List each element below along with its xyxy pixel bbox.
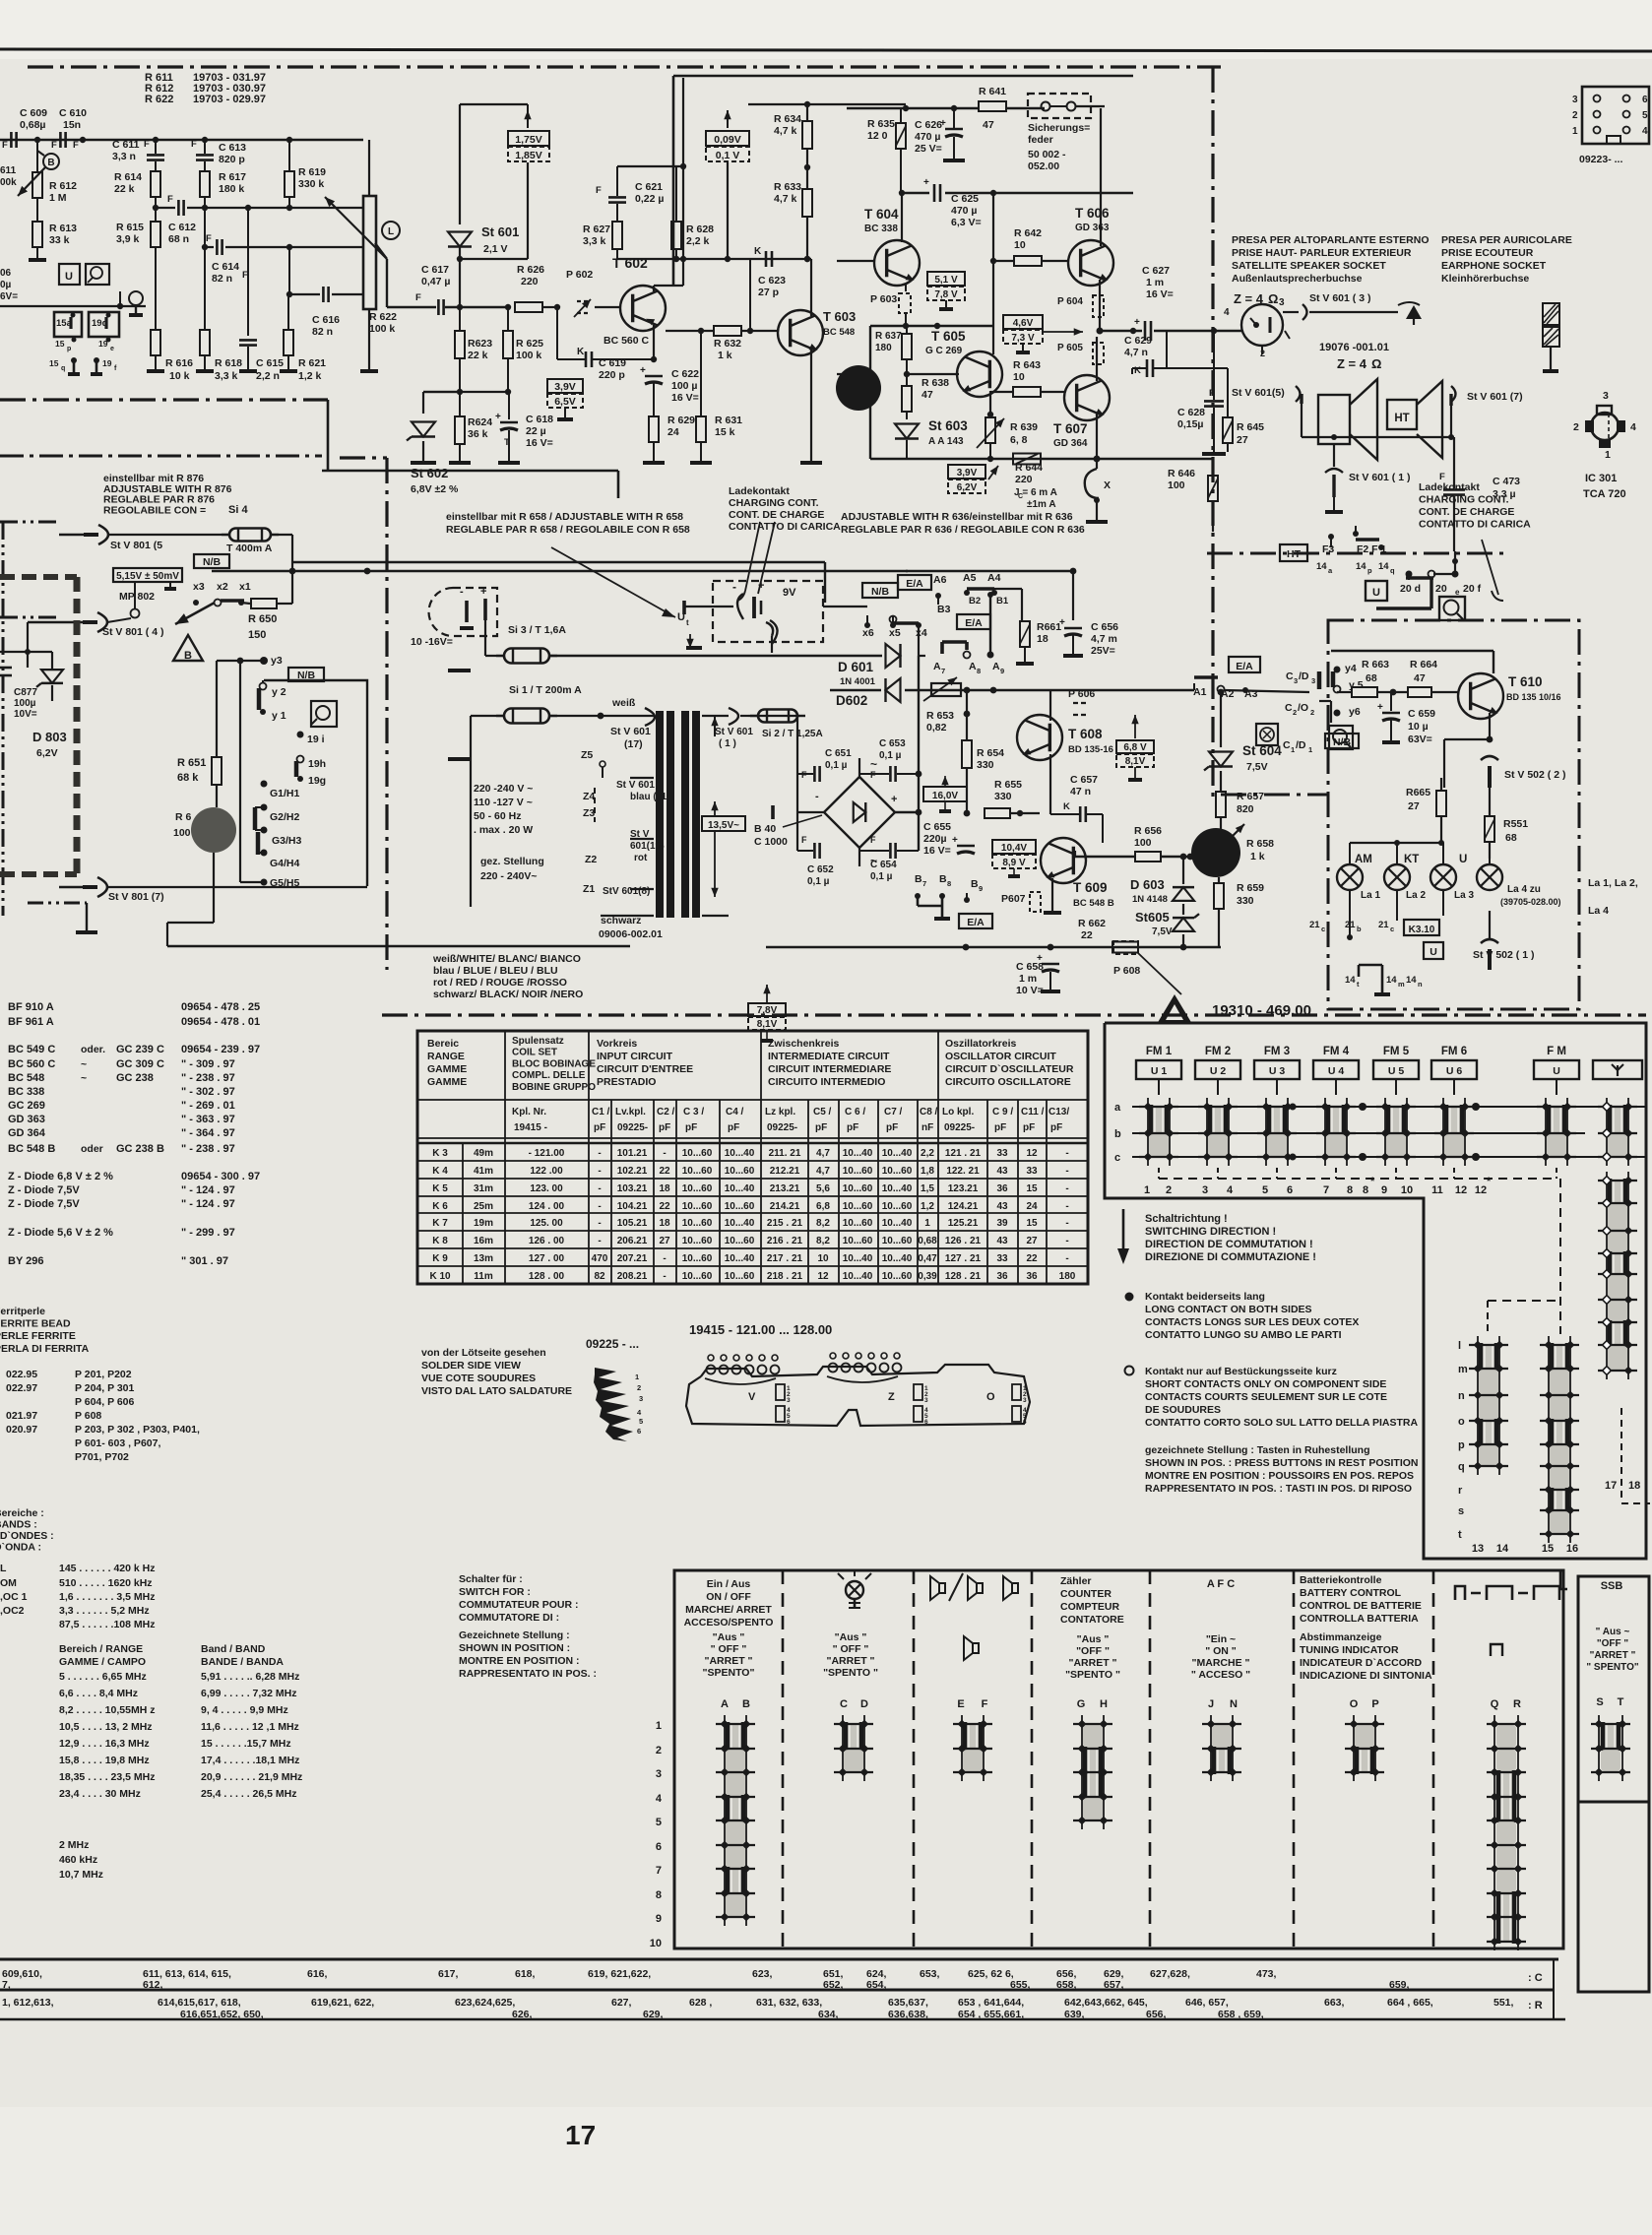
table verticals: [504, 1100, 506, 1284]
svg-text:P 203, P 302 , P303, P401,: P 203, P 302 , P303, P401,: [75, 1424, 200, 1436]
svg-text:T 606: T 606: [1075, 206, 1110, 221]
svg-text:4: 4: [1227, 1184, 1234, 1196]
capacitor C626 470u: [945, 128, 963, 131]
battery 9V dashed box: [713, 581, 823, 642]
svg-text:43: 43: [996, 1201, 1008, 1212]
svg-text:09225-: 09225-: [944, 1122, 975, 1133]
svg-text:C 655: C 655: [923, 821, 951, 833]
svg-text:+: +: [480, 586, 486, 598]
bridge terminal: [771, 805, 775, 819]
transformer arrow: [714, 717, 716, 736]
svg-text:TUNING INDICATOR: TUNING INDICATOR: [1300, 1644, 1399, 1656]
wiper arrow: [175, 603, 215, 624]
svg-text:7: 7: [656, 1865, 662, 1877]
charging contact wire: [766, 622, 773, 636]
svg-text:m: m: [1398, 980, 1405, 989]
Ladekontakt leader: [745, 522, 760, 591]
svg-text:St V 601(5): St V 601(5): [1232, 387, 1285, 399]
svg-text:12 0: 12 0: [867, 130, 888, 142]
resistor R638 47: [902, 386, 912, 412]
svg-text:B: B: [915, 873, 922, 885]
svg-text:15: 15: [1026, 1183, 1038, 1194]
svg-text:A: A: [992, 661, 1000, 672]
resistor R628 2,2k: [671, 222, 681, 249]
svg-text:-: -: [663, 1148, 666, 1159]
svg-text:625, 62 6,: 625, 62 6,: [968, 1968, 1014, 1980]
contacts 19h 19g: [297, 756, 304, 763]
svg-text:-: -: [598, 1183, 601, 1194]
svg-text:470 µ: 470 µ: [951, 205, 978, 217]
svg-text:St V 601 ( 3 ): St V 601 ( 3 ): [1309, 292, 1370, 304]
svg-text:41m: 41m: [474, 1166, 493, 1177]
loupe box 2: [311, 701, 337, 727]
svg-text:IC 301: IC 301: [1585, 473, 1617, 484]
svg-text:664 , 665,: 664 , 665,: [1387, 1997, 1433, 2009]
plug StV502 1: [1481, 939, 1498, 943]
svg-text:K3.10: K3.10: [1409, 925, 1435, 935]
svg-text:180: 180: [1059, 1271, 1076, 1282]
svg-text:656,: 656,: [1146, 2009, 1167, 2020]
svg-text:R 654: R 654: [977, 747, 1004, 759]
contact column O P: [1353, 1715, 1355, 1781]
svg-text:11: 11: [1431, 1184, 1443, 1196]
svg-text:47: 47: [983, 119, 994, 131]
transistor T602 BC560C: [620, 286, 666, 331]
svg-text:A1: A1: [1193, 686, 1207, 698]
svg-text:22: 22: [659, 1201, 670, 1212]
svg-text:B3: B3: [937, 604, 951, 615]
svg-text:Kontakt nur auf Bestückungsse: Kontakt nur auf Bestückungsseite kurz: [1145, 1366, 1337, 1377]
svg-text:C 621: C 621: [635, 181, 663, 193]
svg-text:214.21: 214.21: [770, 1201, 800, 1212]
mains input stubs: [448, 669, 471, 672]
svg-text:U: U: [677, 611, 685, 623]
svg-text:629,: 629,: [643, 2009, 664, 2020]
svg-text:FM 6: FM 6: [1441, 1046, 1467, 1057]
svg-text:P 601- 603 , P607,: P 601- 603 , P607,: [75, 1437, 160, 1449]
T602 collector wire: [653, 286, 655, 291]
svg-text:R 629: R 629: [667, 415, 695, 426]
svg-text:COMMUTATEUR POUR :: COMMUTATEUR POUR :: [459, 1599, 579, 1611]
svg-text:1: 1: [1572, 126, 1578, 137]
svg-text:B2: B2: [969, 596, 981, 607]
svg-text:10...60: 10...60: [882, 1271, 913, 1282]
svg-text:F: F: [167, 194, 173, 205]
switch box U: [59, 264, 80, 285]
svg-text:105.21: 105.21: [617, 1218, 648, 1229]
svg-text:Si 1 / T 200m A: Si 1 / T 200m A: [509, 684, 582, 696]
svg-text:10: 10: [650, 1938, 662, 1949]
zener St605 7,5V: [1173, 918, 1194, 931]
svg-text:"ARRET ": "ARRET ": [826, 1655, 874, 1667]
svg-text:CONT. DE CHARGE: CONT. DE CHARGE: [729, 509, 824, 521]
svg-text:pF: pF: [847, 1122, 858, 1133]
svg-text:652,: 652,: [823, 1979, 844, 1991]
svg-text:C5 /: C5 /: [813, 1107, 832, 1117]
dash-dot horizontal y465: [340, 456, 387, 459]
svg-text:MONTRE EN POSITION :: MONTRE EN POSITION :: [459, 1655, 580, 1667]
svg-text:220: 220: [1015, 474, 1033, 485]
resistor R621 1,2k: [284, 330, 293, 355]
svg-text:La 2: La 2: [1406, 890, 1426, 901]
svg-text:36 k: 36 k: [468, 428, 488, 440]
resistor R643 10: [1013, 387, 1041, 397]
svg-text:3: 3: [1311, 676, 1315, 685]
svg-text:R 641: R 641: [979, 86, 1006, 97]
StV601 plug right: [729, 708, 738, 725]
svg-text:F M: F M: [1547, 1046, 1566, 1057]
svg-text:Zähler: Zähler: [1060, 1575, 1092, 1587]
svg-text:Band / BAND: Band / BAND: [201, 1643, 266, 1655]
svg-text:-: -: [1065, 1201, 1068, 1212]
svg-text:P 603: P 603: [870, 293, 897, 305]
svg-text:p: p: [1458, 1439, 1465, 1451]
svg-text:Z1: Z1: [583, 883, 595, 895]
svg-text:±1m A: ±1m A: [1027, 499, 1056, 510]
svg-text:pF: pF: [815, 1122, 827, 1133]
svg-text:~: ~: [870, 757, 877, 771]
plug StV801(5): [98, 525, 108, 544]
svg-text:U: U: [1372, 587, 1380, 599]
svg-text:R661: R661: [1037, 621, 1061, 633]
svg-text:12: 12: [1455, 1184, 1467, 1196]
svg-text:" - 124 . 97: " - 124 . 97: [181, 1198, 235, 1210]
bridge AC corners: [858, 758, 860, 777]
svg-text:22 µ: 22 µ: [526, 425, 546, 437]
svg-text:K: K: [1063, 801, 1070, 812]
plug StV801(7): [97, 877, 107, 897]
svg-text:10...60: 10...60: [725, 1236, 755, 1246]
leader to battery: [551, 547, 675, 617]
svg-text:639,: 639,: [1064, 2009, 1085, 2020]
Schaltrichtung block: [1122, 1209, 1125, 1251]
svg-text:68 k: 68 k: [177, 772, 199, 784]
svg-text:R 628: R 628: [686, 223, 714, 235]
svg-text:MARCHE/ ARRET: MARCHE/ ARRET: [685, 1604, 772, 1616]
svg-text:C 615: C 615: [256, 357, 284, 369]
wire y263 St601 to 1,75V column: [460, 258, 528, 260]
R653 0,82 adjustable: [931, 683, 961, 696]
svg-text:P 201, P202: P 201, P202: [75, 1369, 132, 1380]
N/B box power: [862, 583, 898, 598]
svg-text:. D`ONDES :: . D`ONDES :: [0, 1530, 54, 1542]
boxed 4,6V 7,3V: [1003, 315, 1043, 329]
svg-text:31m: 31m: [474, 1183, 493, 1194]
svg-text:1 m: 1 m: [1146, 277, 1164, 288]
svg-text:- 121.00: - 121.00: [529, 1148, 565, 1159]
column lamp header: [846, 1581, 863, 1599]
svg-text:( 1 ): ( 1 ): [719, 738, 736, 749]
svg-text:3: 3: [639, 1394, 643, 1403]
svg-text:Z4: Z4: [583, 791, 595, 802]
svg-text:HT: HT: [1394, 413, 1409, 424]
svg-text:A F C: A F C: [1207, 1578, 1235, 1590]
svg-text:33 k: 33 k: [49, 234, 70, 246]
svg-text:" - 309 . 97: " - 309 . 97: [181, 1058, 235, 1070]
svg-text:y6: y6: [1349, 706, 1361, 718]
svg-text:19076 -001.01: 19076 -001.01: [1319, 342, 1389, 353]
svg-text:GD 364: GD 364: [1053, 438, 1088, 449]
svg-text:659,: 659,: [1389, 1979, 1410, 1991]
svg-text:6,5V: 6,5V: [554, 396, 576, 408]
svg-text:R 642: R 642: [1014, 227, 1042, 239]
svg-text:33: 33: [996, 1148, 1008, 1159]
contact y2 y1: [260, 683, 267, 690]
svg-text:U: U: [1553, 1065, 1560, 1077]
svg-text:R: R: [1513, 1698, 1521, 1710]
svg-text:Si 4: Si 4: [228, 504, 248, 516]
svg-text:R 662: R 662: [1078, 918, 1106, 929]
svg-text:D 603: D 603: [1130, 877, 1165, 892]
svg-text:"ARRET ": "ARRET ": [704, 1655, 752, 1667]
svg-text:21: 21: [1309, 920, 1320, 930]
svg-text:1: 1: [1291, 745, 1295, 754]
svg-text:C11 /: C11 /: [1021, 1107, 1045, 1117]
svg-text:R 657: R 657: [1237, 791, 1264, 802]
PCB trace pattern: [594, 1368, 633, 1441]
svg-text:10...40: 10...40: [882, 1183, 913, 1194]
svg-text:Si 3 / T 1,6A: Si 3 / T 1,6A: [508, 624, 566, 636]
svg-text:47 n: 47 n: [1070, 786, 1091, 798]
svg-text:R 651: R 651: [177, 757, 206, 769]
svg-text:R 632: R 632: [714, 338, 741, 350]
svg-text:-: -: [1065, 1183, 1068, 1194]
panel separators: [782, 1570, 785, 1948]
svg-text:C 612: C 612: [168, 222, 196, 233]
svg-text:r: r: [1458, 1485, 1463, 1497]
svg-text:09654 - 478 . 25: 09654 - 478 . 25: [181, 1001, 260, 1013]
SSB box: [1578, 1576, 1649, 1992]
svg-text:+: +: [758, 580, 764, 592]
svg-text:19415 - 121.00 ... 128.00: 19415 - 121.00 ... 128.00: [689, 1322, 832, 1337]
wire x982 down: [966, 690, 968, 740]
HT box: [1280, 544, 1307, 561]
svg-text:63V=: 63V=: [1408, 734, 1432, 745]
svg-text:U 5: U 5: [1388, 1065, 1405, 1077]
svg-text:150: 150: [248, 629, 266, 641]
svg-text:INDICATEUR D`ACCORD: INDICATEUR D`ACCORD: [1300, 1657, 1422, 1669]
wire main signal y312: [375, 243, 387, 259]
svg-text:*: *: [1370, 1176, 1375, 1187]
svg-text:16 V=: 16 V=: [923, 845, 951, 857]
blob to bottom wire: [213, 853, 215, 887]
svg-text:U 2: U 2: [1210, 1065, 1227, 1077]
svg-text:Sicherungs=: Sicherungs=: [1028, 122, 1090, 134]
svg-text:C 656: C 656: [1091, 621, 1118, 633]
svg-text:127 . 00: 127 . 00: [529, 1253, 565, 1264]
svg-text:10...60: 10...60: [682, 1253, 713, 1264]
resistor R635 120: [896, 123, 906, 149]
resistor R614 22k: [151, 171, 160, 197]
svg-text:INTERMEDIATE CIRCUIT: INTERMEDIATE CIRCUIT: [768, 1051, 890, 1062]
svg-text:5,91 . . . . .. 6,28 MHz: 5,91 . . . . .. 6,28 MHz: [201, 1671, 299, 1683]
svg-text:St V 502 ( 2 ): St V 502 ( 2 ): [1504, 769, 1565, 781]
wire y398: [423, 391, 509, 393]
svg-text:6, 8: 6, 8: [1010, 434, 1028, 446]
svg-text:68: 68: [1366, 672, 1377, 684]
svg-text:St 601: St 601: [481, 224, 519, 239]
wire battery plus to switch: [823, 606, 867, 607]
svg-text:C1 /: C1 /: [592, 1107, 610, 1117]
svg-text:A: A: [969, 661, 977, 672]
svg-text:La 3: La 3: [1454, 890, 1474, 901]
svg-text:"SPENTO ": "SPENTO ": [823, 1667, 878, 1679]
svg-text:St605: St605: [1135, 910, 1170, 925]
svg-text:"ARRET ": "ARRET ": [1590, 1650, 1636, 1661]
wire rail y211 with C612: [156, 207, 175, 209]
resistor R631 15k: [696, 416, 706, 442]
svg-text:1: 1: [1144, 1184, 1150, 1196]
svg-text:pF: pF: [659, 1122, 670, 1133]
wire C615 column: [247, 208, 249, 336]
svg-text:F: F: [2, 140, 8, 151]
svg-text:gez. Stellung: gez. Stellung: [480, 856, 544, 867]
svg-text:Z - Diode 6,8 V ± 2 %: Z - Diode 6,8 V ± 2 %: [8, 1171, 113, 1182]
svg-text:PRESA PER AURICOLARE: PRESA PER AURICOLARE: [1441, 234, 1572, 246]
svg-text:O: O: [1350, 1698, 1359, 1710]
dash-dot-dot left border: [0, 521, 61, 524]
svg-text:7,5V: 7,5V: [1246, 761, 1268, 773]
svg-text:BATTERY CONTROL: BATTERY CONTROL: [1300, 1587, 1402, 1599]
svg-text:PERLE FERRITE: PERLE FERRITE: [0, 1330, 76, 1342]
tall box column A 13-14: [1477, 1336, 1479, 1475]
svg-text:470: 470: [592, 1253, 608, 1264]
svg-text:6V=: 6V=: [0, 291, 18, 302]
svg-text:627,: 627,: [611, 1997, 632, 2009]
svg-text:617,: 617,: [438, 1968, 459, 1980]
svg-text:C 610: C 610: [59, 107, 87, 119]
svg-text:" - 269 . 01: " - 269 . 01: [181, 1100, 235, 1112]
svg-text:einstellbar mit R 658 / ADJUS: einstellbar mit R 658 / ADJUSTABLE WITH …: [446, 511, 683, 523]
svg-text:14: 14: [1356, 561, 1366, 572]
svg-text:7: 7: [922, 879, 926, 888]
pin number stacks: [776, 1384, 785, 1400]
svg-text:3: 3: [1279, 297, 1285, 308]
svg-text:K 3: K 3: [432, 1148, 448, 1159]
boxed 0,09V 0,1V: [706, 131, 749, 146]
svg-text:blau (11): blau (11): [630, 792, 670, 802]
13,5V box: [702, 816, 745, 831]
svg-text:C 628: C 628: [1177, 407, 1205, 418]
svg-text:24: 24: [667, 426, 679, 438]
svg-text:BC 549 C: BC 549 C: [8, 1044, 55, 1055]
DC input socket dashed: [428, 588, 497, 636]
speaker 1: [1318, 395, 1350, 444]
svg-text:22: 22: [1081, 929, 1093, 941]
svg-text:3: 3: [787, 1397, 791, 1404]
svg-text:F: F: [144, 139, 150, 150]
capacitor C659 10u: [1382, 712, 1400, 715]
svg-text:8: 8: [977, 667, 981, 675]
svg-text:+: +: [923, 177, 929, 188]
svg-text:R 646: R 646: [1168, 468, 1195, 479]
svg-text:R 615: R 615: [116, 222, 144, 233]
speaker socket pin wires: [1302, 436, 1454, 438]
svg-text:R 622: R 622: [369, 311, 397, 323]
svg-text:0,09V: 0,09V: [714, 134, 740, 146]
svg-text:Batteriekontrolle: Batteriekontrolle: [1300, 1574, 1382, 1586]
svg-text:20 d: 20 d: [1400, 583, 1421, 595]
svg-text:10: 10: [1401, 1184, 1413, 1196]
svg-text:9: 9: [979, 884, 983, 893]
svg-text:t: t: [686, 618, 689, 627]
svg-text:0,22 µ: 0,22 µ: [635, 193, 664, 205]
svg-text:INDICAZIONE DI SINTONIA: INDICAZIONE DI SINTONIA: [1300, 1670, 1432, 1682]
svg-text:657,: 657,: [1104, 1979, 1124, 1991]
svg-text:126 . 21: 126 . 21: [945, 1236, 982, 1246]
svg-text:2: 2: [1293, 708, 1297, 717]
svg-text:St V 801 ( 4 ): St V 801 ( 4 ): [102, 626, 163, 638]
svg-text:19703 - 029.97: 19703 - 029.97: [193, 94, 266, 105]
T609 collector wire: [1074, 851, 1076, 857]
svg-text:09006-002.01: 09006-002.01: [599, 928, 663, 940]
wire y701 A-row: [925, 689, 1194, 691]
svg-text:8,2 . . . . . 10,55MH z: 8,2 . . . . . 10,55MH z: [59, 1704, 155, 1716]
svg-text:R 635: R 635: [867, 118, 895, 130]
svg-text:pF: pF: [1050, 1122, 1062, 1133]
svg-text:43: 43: [996, 1166, 1008, 1177]
svg-text:SWITCHING DIRECTION !: SWITCHING DIRECTION !: [1145, 1226, 1276, 1238]
svg-text:K 9: K 9: [432, 1253, 448, 1264]
svg-text:180: 180: [875, 343, 892, 353]
svg-text:220 p: 220 p: [599, 369, 625, 381]
resistor R627 3,3k: [612, 222, 622, 249]
svg-text:+: +: [1059, 617, 1065, 628]
svg-text:B: B: [939, 873, 947, 885]
svg-text:m: m: [1458, 1364, 1468, 1375]
svg-text:pF: pF: [594, 1122, 605, 1133]
svg-text:R 638: R 638: [921, 377, 949, 389]
svg-text:Ladekontakt: Ladekontakt: [1419, 481, 1480, 493]
svg-text:14: 14: [1386, 975, 1397, 986]
svg-text:St V 801 (5: St V 801 (5: [110, 540, 162, 551]
svg-text:St V 801 (7): St V 801 (7): [108, 891, 164, 903]
svg-text:658,: 658,: [1056, 1979, 1077, 1991]
svg-text:PRESTADIO: PRESTADIO: [597, 1076, 656, 1088]
wire speaker area down: [1222, 524, 1280, 551]
svg-text:blau / BLUE / BLEU / BLU: blau / BLUE / BLEU / BLU: [433, 965, 558, 977]
dashed links to tall box: [1488, 1300, 1560, 1302]
svg-text:-: -: [1065, 1236, 1068, 1246]
svg-text:6,3 V=: 6,3 V=: [951, 217, 982, 228]
svg-text:14: 14: [1496, 1543, 1509, 1555]
svg-text:GD 364: GD 364: [8, 1127, 46, 1139]
svg-text:U 3: U 3: [1269, 1065, 1286, 1077]
svg-text:020.97: 020.97: [6, 1424, 37, 1436]
svg-text:C 613: C 613: [219, 142, 246, 154]
wire bottom rail y962: [766, 946, 1221, 948]
svg-text:50 002 -: 50 002 -: [1028, 149, 1066, 160]
dash-dot border y406: [0, 398, 328, 401]
svg-text:B: B: [184, 650, 192, 662]
table horizontals: [417, 1099, 1088, 1101]
svg-text:" - 299 . 97: " - 299 . 97: [181, 1227, 235, 1239]
T604 base wire: [837, 260, 875, 262]
svg-text:pF: pF: [1023, 1122, 1035, 1133]
svg-text:10...40: 10...40: [882, 1148, 913, 1159]
svg-text:10...60: 10...60: [682, 1236, 713, 1246]
svg-text:COIL SET: COIL SET: [512, 1048, 557, 1058]
svg-text:C 659: C 659: [1408, 708, 1435, 720]
svg-text:PRISE HAUT- PARLEUR EXTERIEU: PRISE HAUT- PARLEUR EXTERIEUR: [1232, 247, 1412, 259]
svg-text:1N 4001: 1N 4001: [840, 676, 876, 687]
svg-text:e: e: [110, 346, 114, 352]
svg-text:2,2: 2,2: [921, 1148, 934, 1159]
svg-text:BC 548: BC 548: [823, 327, 855, 338]
svg-text:3,3 n: 3,3 n: [112, 151, 136, 162]
svg-text:10,5 . . . . 13, 2 MHz: 10,5 . . . . 13, 2 MHz: [59, 1721, 153, 1733]
svg-text:5: 5: [656, 1817, 662, 1828]
